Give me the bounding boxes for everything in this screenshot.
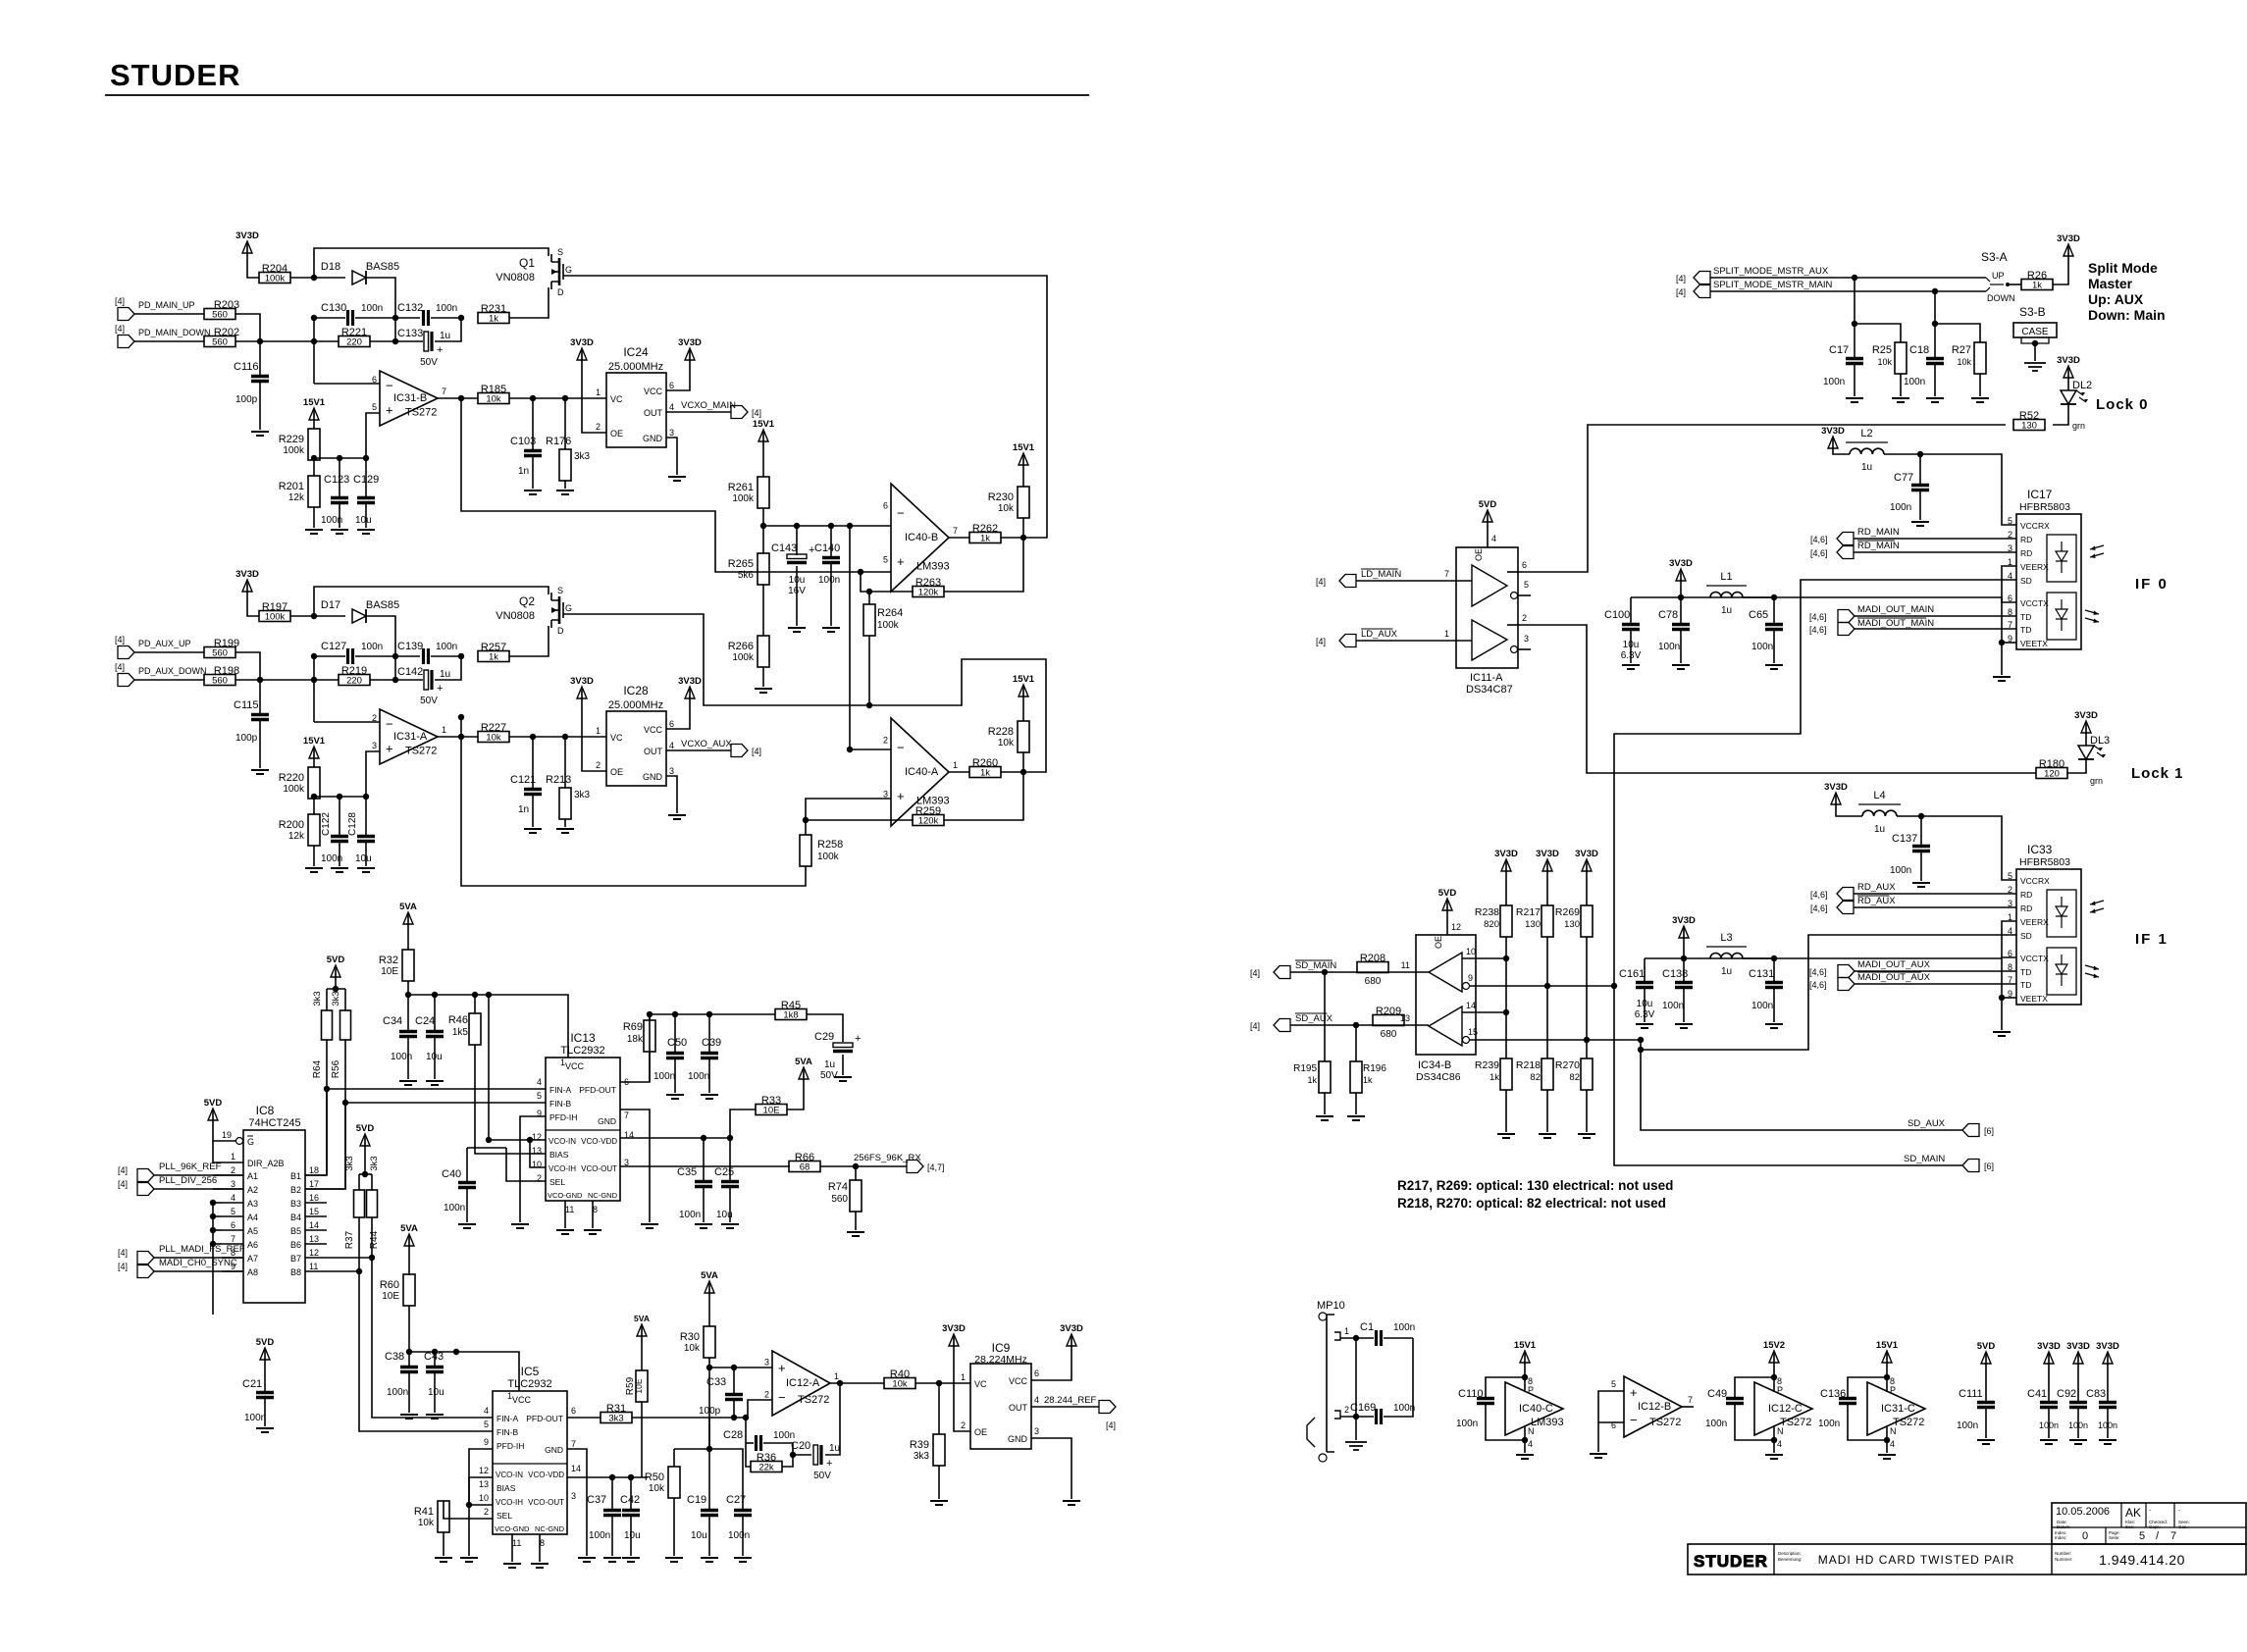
wire	[762, 441, 764, 477]
resistor R74 560	[855, 1166, 857, 1180]
ground	[503, 1564, 521, 1568]
svg-text:10k: 10k	[1877, 357, 1892, 367]
svg-text:7: 7	[2170, 1530, 2176, 1542]
svg-text:[4]: [4]	[115, 324, 125, 334]
svg-text:+: +	[778, 1361, 786, 1375]
wire PFD-OUT to R69 node	[620, 1014, 650, 1082]
IF 0 rx arrows	[2090, 545, 2104, 557]
wire	[313, 656, 315, 722]
resistor R228 10k	[1018, 721, 1029, 752]
capacitor C138 100n	[1683, 958, 1685, 981]
svg-text:IC33: IC33	[2027, 843, 2053, 856]
svg-text:1u: 1u	[824, 1059, 835, 1070]
ground	[603, 1558, 621, 1562]
svg-text:5VA: 5VA	[634, 1314, 650, 1323]
svg-text:IC31-B: IC31-B	[393, 392, 427, 404]
svg-text:3V3D: 3V3D	[678, 676, 702, 687]
wire IC40-A plus input	[806, 799, 891, 835]
capacitor C33 100p	[733, 1368, 735, 1393]
svg-text:3k3: 3k3	[312, 991, 323, 1006]
svg-text:C19: C19	[687, 1494, 706, 1506]
wire VCO-IN from C40	[488, 995, 490, 1110]
svg-text:FIN-A: FIN-A	[496, 1414, 519, 1423]
svg-text:560: 560	[831, 1194, 848, 1205]
capacitor C19 10u	[708, 1449, 710, 1509]
svg-text:C116: C116	[234, 361, 258, 373]
resistor R199 560	[204, 647, 235, 658]
resistor R260 1k	[969, 767, 1001, 778]
svg-text:VCO-IH: VCO-IH	[496, 1498, 523, 1507]
svg-text:18: 18	[309, 1165, 319, 1175]
svg-text:PFD-OUT: PFD-OUT	[579, 1085, 616, 1095]
svg-text:N: N	[1777, 1426, 1784, 1436]
svg-text:4: 4	[669, 741, 674, 750]
svg-text:3k3: 3k3	[331, 991, 341, 1006]
svg-text:100n: 100n	[361, 642, 383, 652]
svg-text:3k3: 3k3	[574, 451, 591, 462]
svg-text:2: 2	[231, 1165, 235, 1175]
svg-text:50V: 50V	[820, 1070, 838, 1081]
ground	[834, 1077, 852, 1081]
resistor R25 10k	[1895, 342, 1907, 374]
svg-text:10u: 10u	[428, 1387, 444, 1398]
svg-text:PLL_MADI_FS_REF: PLL_MADI_FS_REF	[159, 1244, 245, 1255]
svg-text:IC40-B: IC40-B	[905, 532, 938, 543]
svg-text:VEETX: VEETX	[2020, 994, 2048, 1004]
IC IC13 TLC2932	[546, 1058, 620, 1201]
svg-text:R264: R264	[877, 607, 903, 619]
wire C18 branch	[1935, 291, 1980, 342]
svg-text:[4]: [4]	[115, 635, 125, 645]
power 15V2 IC12-C	[1773, 1355, 1775, 1363]
wire IC40-B plus node	[861, 572, 914, 592]
wire R31 to IC12-A minus	[632, 1400, 772, 1418]
svg-text:C169: C169	[1350, 1402, 1376, 1414]
ground	[755, 689, 772, 693]
svg-text:B3: B3	[290, 1199, 301, 1209]
svg-text:R208: R208	[1360, 953, 1385, 964]
wire R50 top	[674, 1448, 709, 1450]
svg-text:5VA: 5VA	[400, 1223, 418, 1234]
wire MP10 pin1	[1340, 1337, 1374, 1339]
wire IC12-A output	[830, 1382, 884, 1384]
wire R264 down	[868, 636, 870, 705]
capacitor C1 100n	[1377, 1330, 1382, 1346]
svg-text:G: G	[565, 603, 572, 613]
wire L2 node	[1884, 454, 2016, 525]
svg-text:VCC: VCC	[644, 387, 663, 396]
resistor R218 82	[1542, 1058, 1553, 1090]
power 3V3D IC9 OE	[953, 1338, 955, 1346]
power 3V3D C100 rail	[1680, 573, 1682, 581]
inductor L4 1u	[1862, 810, 1897, 816]
capacitor C129 10u	[365, 458, 367, 496]
svg-text:LD_AUX: LD_AUX	[1361, 629, 1398, 640]
wire threshold to IC40-A minus	[850, 526, 891, 749]
wire main control voltage to IC40-B+	[461, 398, 891, 572]
svg-text:C83: C83	[2086, 1388, 2106, 1400]
resistor R259 120k	[806, 819, 914, 821]
wire switch common	[2008, 284, 2021, 285]
resistor R45 1k8	[775, 1009, 807, 1020]
svg-text:100n: 100n	[391, 1052, 412, 1062]
IC IC11-A DS34C87	[1456, 547, 1518, 668]
svg-text:5VD: 5VD	[1438, 888, 1457, 899]
svg-text:5: 5	[484, 1420, 489, 1429]
svg-text:18k: 18k	[627, 1034, 644, 1045]
capacitor C38 100n	[400, 1368, 418, 1372]
svg-text:100k: 100k	[265, 274, 286, 284]
svg-text:C29: C29	[814, 1031, 834, 1043]
svg-text:100n: 100n	[1751, 1001, 1773, 1011]
svg-text:R30: R30	[680, 1331, 700, 1343]
capacitor C41 100n	[2048, 1364, 2050, 1401]
svg-text:C130: C130	[321, 302, 346, 314]
power 5VD IC34	[1446, 903, 1448, 910]
svg-text:L1: L1	[1720, 571, 1732, 583]
svg-text:3V3D: 3V3D	[1494, 849, 1518, 859]
svg-text:C17: C17	[1829, 344, 1849, 356]
svg-text:15V1: 15V1	[303, 397, 326, 408]
svg-text:AK: AK	[2125, 1506, 2141, 1520]
svg-text:1: 1	[961, 1372, 966, 1382]
transistor Q2 VN0808	[558, 596, 561, 624]
svg-text:MADI_CH0_SYNC: MADI_CH0_SYNC	[159, 1258, 237, 1268]
LED DL2 grn	[2067, 378, 2069, 390]
svg-text:−: −	[1630, 1413, 1638, 1427]
resistor R217 130	[1546, 871, 1548, 905]
svg-text:3V3D: 3V3D	[1669, 558, 1693, 569]
ground	[701, 1558, 718, 1562]
svg-text:220: 220	[346, 337, 362, 348]
svg-text:5VA: 5VA	[795, 1057, 812, 1067]
svg-text:A5: A5	[247, 1226, 258, 1236]
svg-text:GND: GND	[545, 1445, 563, 1455]
svg-text:16: 16	[309, 1193, 319, 1203]
svg-text:C129: C129	[353, 474, 379, 486]
ground	[695, 1224, 712, 1228]
svg-text:S: S	[557, 586, 563, 595]
oscillator IC28 25.000MHz	[606, 711, 666, 786]
svg-text:1u: 1u	[440, 331, 450, 341]
svg-text:100n: 100n	[1705, 1419, 1727, 1429]
svg-text:PD_MAIN_UP: PD_MAIN_UP	[138, 300, 195, 310]
power 5VA R30	[708, 1285, 710, 1293]
capacitor C143 10u 16V	[796, 526, 798, 555]
wire	[370, 679, 423, 681]
svg-text:VCCRX: VCCRX	[2020, 521, 2050, 531]
connector MADI_OUT_MAIN inv	[1838, 623, 1855, 636]
resistor R180 120	[2036, 768, 2067, 779]
resistor R27 10k	[1974, 342, 1986, 374]
svg-text:Datum:: Datum:	[2057, 1524, 2071, 1529]
svg-text:1k5: 1k5	[452, 1027, 469, 1038]
wire aux control voltage node	[461, 717, 806, 886]
svg-text:VCC: VCC	[565, 1061, 585, 1071]
capacitor C39 100n	[708, 1014, 710, 1052]
IC IC8 74HCT245	[243, 1130, 305, 1303]
power 15V1 comparator divider	[762, 434, 764, 441]
svg-text:R69: R69	[623, 1021, 643, 1033]
svg-text:560: 560	[212, 310, 228, 321]
svg-text:1u: 1u	[829, 1443, 840, 1454]
wire op-amp output	[438, 736, 478, 738]
svg-text:3V3D: 3V3D	[678, 337, 702, 348]
svg-text:1k: 1k	[2032, 281, 2042, 291]
power 5VD C111	[1985, 1356, 1987, 1364]
svg-text:LD_MAIN: LD_MAIN	[1361, 569, 1401, 580]
svg-text:G: G	[247, 1137, 254, 1147]
svg-text:R209: R209	[1376, 1006, 1401, 1017]
svg-text:100n: 100n	[436, 303, 457, 314]
ground	[460, 1558, 478, 1562]
resistor R257 1k	[478, 651, 509, 662]
svg-text:6: 6	[571, 1406, 576, 1416]
wire PFD-IH IC5	[469, 1449, 493, 1556]
ground	[1765, 1024, 1783, 1028]
ground	[357, 868, 375, 872]
ground IC12-B	[1590, 1454, 1607, 1458]
svg-text:SD: SD	[2020, 576, 2032, 586]
svg-text:G: G	[565, 265, 572, 275]
resistor R66 68	[789, 1162, 820, 1172]
svg-text:7: 7	[442, 387, 446, 396]
svg-text:MP10: MP10	[1317, 1300, 1345, 1312]
wire IC12-C neg supply	[1773, 1425, 1775, 1453]
svg-text:3: 3	[669, 766, 674, 776]
capacitor C122 100n	[339, 797, 340, 835]
wire	[247, 253, 259, 278]
svg-text:R50: R50	[645, 1471, 664, 1483]
power 3V3D OE	[581, 691, 583, 698]
svg-text:GND: GND	[643, 772, 663, 782]
svg-text:3: 3	[669, 428, 674, 438]
svg-text:100n: 100n	[444, 1203, 465, 1213]
svg-text:11: 11	[1401, 960, 1410, 970]
svg-text:15V2: 15V2	[1763, 1340, 1785, 1351]
capacitor C43 10u	[434, 1352, 436, 1366]
capacitor C140 100n	[830, 526, 832, 556]
ground IC17	[1993, 677, 2011, 681]
connector SPLIT_MODE_MSTR_AUX	[1694, 272, 1710, 284]
wire op-amp minus input	[314, 721, 380, 723]
ground	[1765, 665, 1783, 669]
svg-text:15V1: 15V1	[1013, 442, 1035, 453]
connector 256FS_96K_RX	[907, 1161, 923, 1173]
svg-text:2: 2	[484, 1507, 489, 1517]
svg-text:VCO-OUT: VCO-OUT	[528, 1498, 564, 1507]
svg-text:1: 1	[834, 1371, 839, 1381]
ground	[1912, 883, 1930, 887]
wire	[1001, 771, 1023, 773]
svg-text:100n: 100n	[1393, 1403, 1415, 1414]
wire R44 to B7 / down to IC5 FIN-A	[371, 1217, 373, 1258]
svg-text:C131: C131	[1749, 968, 1774, 980]
resistor R32 10E	[402, 950, 414, 981]
svg-text:IC12-C: IC12-C	[1768, 1403, 1803, 1415]
wire Q source rail	[314, 587, 549, 616]
svg-text:[4]: [4]	[1676, 287, 1686, 297]
svg-text:5VD: 5VD	[1977, 1341, 1996, 1352]
capacitor C17 100n	[1846, 359, 1863, 364]
svg-text:12k: 12k	[288, 831, 305, 842]
ground	[622, 1558, 640, 1562]
ground	[2069, 1440, 2087, 1444]
connector PLL_DIV_256	[137, 1183, 154, 1196]
ground	[1926, 398, 1944, 402]
svg-text:25.000MHz: 25.000MHz	[608, 699, 663, 711]
earth ground MP10	[1345, 1442, 1367, 1450]
svg-text:680: 680	[1365, 976, 1382, 987]
power 5VD C21	[264, 1352, 266, 1360]
svg-text:3V3D: 3V3D	[1575, 849, 1598, 859]
svg-text:12: 12	[479, 1466, 489, 1475]
ground	[524, 829, 542, 833]
resistor R231 1k	[478, 313, 509, 324]
resistor R258 100k	[800, 835, 811, 866]
svg-text:4: 4	[537, 1077, 542, 1087]
svg-text:100n: 100n	[387, 1387, 408, 1398]
capacitor C20 1u 50V	[813, 1445, 818, 1465]
IC8 pin G	[236, 1138, 243, 1145]
svg-text:C33: C33	[706, 1376, 726, 1388]
wire	[335, 977, 337, 989]
wire threshold node	[762, 508, 764, 553]
connector SPLIT_MODE_MSTR_MAIN	[1694, 285, 1710, 298]
wire VCC	[666, 698, 690, 729]
op-amp IC31-B TS272	[380, 371, 438, 426]
resistor R221 220	[339, 336, 370, 347]
wire	[313, 318, 315, 384]
wire DL2 to R52	[2053, 404, 2068, 425]
svg-text:10: 10	[1466, 947, 1476, 956]
STUDER logo header	[110, 58, 240, 92]
ground IC40-C	[1516, 1455, 1534, 1459]
IC34-B receiver triangle 1	[1429, 953, 1462, 992]
ground	[822, 628, 840, 632]
svg-text:A8: A8	[247, 1267, 258, 1277]
capacitor C24 10u	[434, 995, 436, 1030]
ground	[1846, 398, 1863, 402]
wire Q source rail	[314, 248, 549, 278]
svg-text:Gepr.:: Gepr.:	[2149, 1524, 2161, 1529]
wire op-amp plus input	[366, 751, 380, 797]
svg-text:2: 2	[596, 422, 601, 432]
svg-text:100k: 100k	[283, 445, 305, 456]
svg-text:100n: 100n	[589, 1530, 610, 1541]
svg-text:1: 1	[596, 387, 601, 397]
svg-text:5: 5	[1611, 1379, 1616, 1389]
svg-text:DL2: DL2	[2072, 380, 2092, 391]
ground	[426, 1081, 444, 1085]
ground	[1636, 1024, 1653, 1028]
svg-text:TLC2932: TLC2932	[560, 1045, 604, 1057]
svg-text:1k: 1k	[489, 652, 498, 663]
resistor R41 10k	[444, 1501, 493, 1519]
wire VCC IC9	[1031, 1346, 1071, 1380]
capacitor C128 10u	[365, 797, 367, 835]
svg-text:7: 7	[953, 526, 958, 536]
svg-text:[4,6]: [4,6]	[1810, 903, 1828, 913]
resistor R208 680	[1357, 962, 1388, 973]
wire	[407, 924, 409, 950]
svg-text:LM393: LM393	[916, 560, 950, 572]
svg-text:Number:: Number:	[2055, 1551, 2071, 1556]
svg-text:28.244_REF: 28.244_REF	[1044, 1395, 1097, 1406]
svg-text:VCO-VDD: VCO-VDD	[581, 1137, 617, 1146]
svg-text:3V3D: 3V3D	[235, 569, 259, 580]
svg-text:3: 3	[883, 790, 888, 800]
svg-text:15V1: 15V1	[1013, 674, 1035, 685]
svg-text:10E: 10E	[382, 1291, 399, 1302]
connector MADI_OUT_MAIN	[1838, 610, 1855, 623]
svg-text:C41: C41	[2027, 1388, 2047, 1400]
svg-text:D17: D17	[321, 599, 340, 611]
wire VEERX IC33	[2002, 921, 2016, 1030]
svg-text:100p: 100p	[235, 733, 258, 744]
svg-text:A6: A6	[247, 1240, 258, 1250]
resistor R64 3k3	[326, 989, 328, 1010]
svg-text:R46: R46	[448, 1014, 468, 1026]
resistor R185 10k	[478, 393, 509, 404]
ground	[1347, 1116, 1365, 1120]
wire	[408, 1246, 410, 1275]
IC11-A OE pin 4	[1474, 548, 1484, 561]
capacitor C25 10u	[729, 1138, 731, 1180]
svg-text:11: 11	[565, 1205, 574, 1214]
wire	[370, 340, 423, 342]
power 3V3D R238	[1505, 863, 1507, 871]
svg-text:[4,6]: [4,6]	[1809, 625, 1827, 635]
capacitor C21 100n	[256, 1393, 274, 1398]
svg-text:OE: OE	[1434, 936, 1443, 949]
svg-text:5VD: 5VD	[356, 1123, 375, 1134]
svg-text:6: 6	[669, 381, 674, 390]
resistor R261 100k	[758, 477, 769, 508]
svg-text:5VD: 5VD	[204, 1098, 223, 1109]
IC IC5 TLC2932	[493, 1391, 567, 1534]
ground	[331, 868, 348, 872]
svg-text:A4: A4	[247, 1213, 258, 1222]
svg-text:1: 1	[442, 725, 446, 735]
svg-text:10E: 10E	[381, 966, 398, 977]
connector PLL_MADI_FS_REF	[137, 1252, 154, 1265]
wire R30 down	[708, 1358, 710, 1449]
svg-text:IC11-A: IC11-A	[1470, 672, 1503, 684]
svg-text:C39: C39	[702, 1037, 721, 1049]
svg-text:560: 560	[212, 337, 228, 348]
svg-text:14: 14	[1466, 1001, 1476, 1010]
ground	[426, 1415, 444, 1419]
svg-text:560: 560	[212, 676, 228, 687]
svg-text:100k: 100k	[283, 784, 305, 795]
earth ground S3-B	[2024, 363, 2046, 371]
power 15V1 R228	[1022, 689, 1024, 697]
wire to C20	[793, 1454, 811, 1456]
svg-text:R37: R37	[344, 1230, 355, 1249]
svg-text:TD: TD	[2020, 625, 2031, 635]
wire FIN-B line	[345, 1102, 546, 1104]
capacitor C161 10u 6.3V	[1644, 958, 1646, 981]
resistor R203 560	[204, 309, 235, 320]
svg-text:PD_AUX_UP: PD_AUX_UP	[138, 639, 191, 648]
svg-text:VCO-GND: VCO-GND	[548, 1191, 583, 1200]
power 3V3D VCC	[689, 352, 691, 360]
power 5VD IC8	[212, 1112, 214, 1120]
svg-text:BIAS: BIAS	[549, 1150, 569, 1160]
svg-text:R261: R261	[728, 482, 754, 493]
op-amp IC40-A LM393	[891, 718, 949, 826]
